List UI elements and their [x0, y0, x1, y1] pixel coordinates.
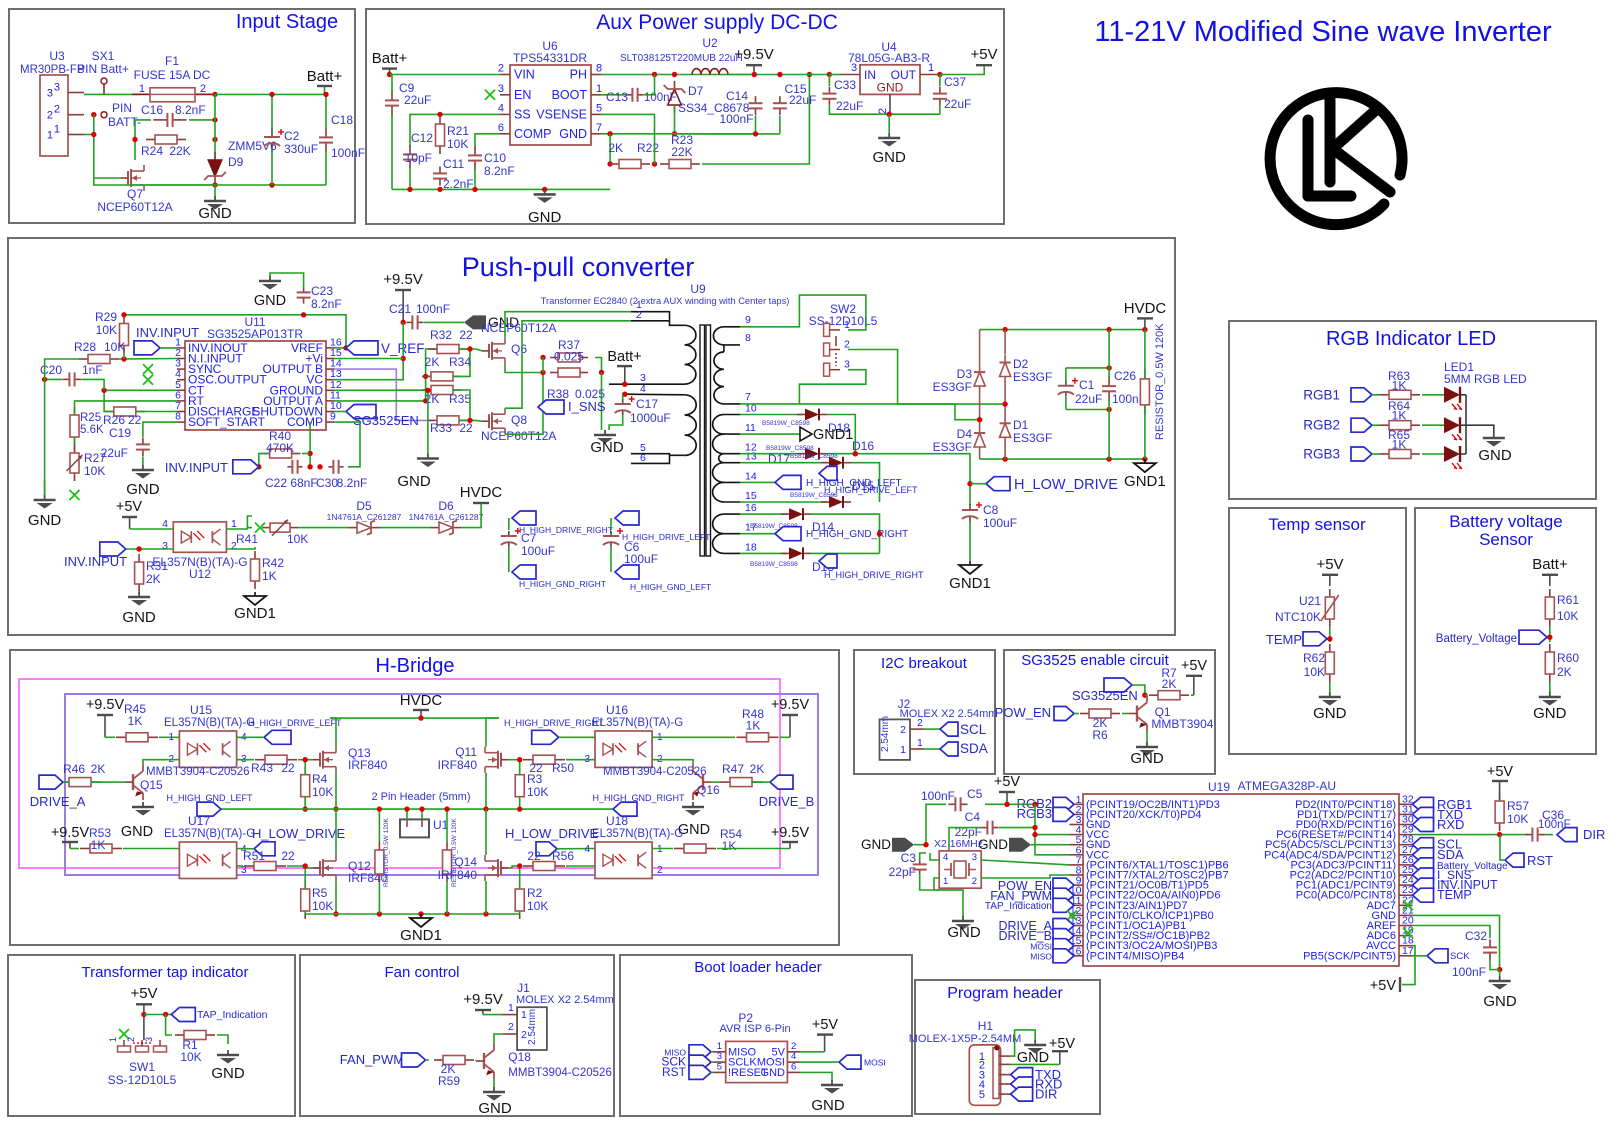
svg-text:R38: R38: [547, 387, 569, 401]
junction: [91, 132, 96, 137]
svg-text:NCEP60T12A: NCEP60T12A: [97, 200, 172, 214]
svg-text:SG3525EN: SG3525EN: [1072, 688, 1138, 703]
wire bleed r top: [446, 809, 448, 842]
wire u15 pin3: [237, 759, 254, 761]
wire pin16: [740, 513, 787, 515]
frame SG3525 enable circuit: [1004, 650, 1215, 774]
wire SCK p2: [711, 1061, 713, 1063]
ground c32: [1499, 976, 1501, 981]
wire sgen: [1132, 685, 1145, 695]
frame I2C breakout: [854, 650, 995, 774]
svg-text:SCL: SCL: [960, 722, 987, 737]
resistor R63: [1380, 394, 1389, 396]
svg-text:C10: C10: [484, 151, 506, 165]
junction: [853, 451, 858, 456]
net flag TEMP u19r: [1413, 888, 1434, 902]
svg-text:H-Bridge: H-Bridge: [376, 655, 455, 677]
schottky diode D18: [797, 414, 805, 416]
transistor Q1: [1136, 706, 1138, 722]
resistor R42: [254, 551, 256, 559]
power flag +5V r57: [1492, 780, 1508, 782]
wire fuse lead: [132, 93, 215, 95]
junction: [323, 92, 328, 97]
pin 16 U19 (PCINT4/MISO)PB4: [1070, 955, 1084, 957]
svg-text:4: 4: [498, 102, 504, 114]
pin 32 U19 PD2(INT0/PCINT18): [1399, 803, 1413, 805]
svg-text:C18: C18: [331, 113, 353, 127]
power flag +5V h1: [1052, 1050, 1068, 1052]
wire +vi: [334, 358, 403, 360]
junction: [937, 72, 942, 77]
frame Program header: [915, 980, 1100, 1114]
wire R65 out: [1422, 453, 1444, 455]
svg-text:C20: C20: [40, 363, 62, 377]
wire u18 flag: [557, 848, 595, 850]
resistor R38: [550, 372, 558, 374]
frame Push-pull converter: [8, 238, 1175, 635]
svg-text:HVDC: HVDC: [460, 484, 503, 501]
pin 2 J2: [910, 728, 924, 730]
svg-text:SG3525AP013TR: SG3525AP013TR: [207, 327, 303, 341]
svg-text:MMBT3904: MMBT3904: [1151, 717, 1213, 731]
pin 1 U19 (PCINT19/OC2B/INT1)PD3: [1070, 803, 1084, 805]
svg-text:1N4761A_C261287: 1N4761A_C261287: [409, 512, 484, 522]
net flag RGB1: [1351, 388, 1372, 402]
connector U3: [40, 75, 68, 156]
wire c4 right: [999, 827, 1035, 829]
power flag +5V p2: [817, 1033, 833, 1035]
svg-text:+5V: +5V: [1181, 658, 1208, 674]
svg-text:2: 2: [498, 63, 504, 75]
svg-text:5: 5: [979, 1089, 985, 1101]
ground sg3525: [427, 454, 429, 459]
svg-text:GND1: GND1: [813, 427, 853, 443]
pin 15 U19 (PCINT3/OC2A/MOSI)PB3: [1070, 945, 1084, 947]
svg-text:C13: C13: [606, 90, 628, 104]
svg-text:2K: 2K: [608, 141, 623, 155]
net flag MISO u19: [1053, 949, 1074, 963]
wire u16 r48: [652, 736, 735, 738]
net flag H_HIGH_DRIVE_RIGHT pp: [819, 554, 837, 568]
wire vref rail: [124, 315, 346, 348]
winding lead: [724, 462, 740, 464]
svg-text:Q14: Q14: [454, 855, 477, 869]
pin 6 U6 COMP: [500, 133, 510, 135]
svg-text:+9.5V: +9.5V: [463, 991, 503, 1008]
svg-text:8.2nF: 8.2nF: [484, 164, 515, 178]
rectifier diode D4: [979, 425, 981, 433]
pin 19 U19 ADC6: [1399, 935, 1413, 937]
capacitor C30: [328, 466, 333, 468]
svg-text:Sensor: Sensor: [1479, 530, 1533, 549]
svg-text:1: 1: [928, 62, 934, 74]
pin 8 U6 PH: [591, 74, 601, 76]
svg-text:H_HIGH_GND_LEFT: H_HIGH_GND_LEFT: [630, 582, 711, 592]
gnd flag left u19: [892, 838, 914, 852]
wire powen r6: [1074, 713, 1079, 715]
junction: [407, 187, 412, 192]
ground q16: [692, 802, 694, 807]
wire outA: [334, 349, 437, 401]
junction: [1002, 401, 1007, 406]
wire r45 u15: [159, 736, 179, 738]
power flag +5V u19: [999, 791, 1015, 793]
svg-text:22: 22: [281, 761, 295, 775]
junction: [444, 911, 449, 916]
wire r40 left: [259, 454, 269, 467]
winding lead: [724, 481, 740, 483]
svg-text:C23: C23: [311, 284, 333, 298]
wire gnd drop c32: [1499, 970, 1501, 976]
wire p2 5v: [800, 1051, 825, 1053]
svg-text:GND: GND: [947, 924, 981, 941]
wire reset: [1413, 834, 1529, 836]
capacitor C1: [1065, 381, 1067, 386]
resistor R33: [428, 419, 437, 421]
net flag MOSI p2: [839, 1055, 861, 1069]
net flag FAN_PWM u19: [1053, 888, 1074, 902]
wire outB purple: [334, 369, 431, 390]
svg-text:2K: 2K: [1557, 665, 1572, 679]
svg-text:2: 2: [900, 724, 906, 736]
aux winding 16-17: [713, 514, 724, 534]
svg-text:1: 1: [521, 1009, 527, 1021]
optocoupler U15: [179, 731, 236, 767]
svg-text:Q8: Q8: [511, 413, 527, 427]
wire ground pin: [334, 389, 428, 391]
svg-text:R50: R50: [552, 761, 574, 775]
wire q15 coll: [143, 760, 179, 764]
aux winding 17-18: [713, 534, 724, 554]
rectifier diode D2: [1004, 355, 1006, 363]
pin 2 J1: [503, 1033, 517, 1035]
pin 4 U6 SS: [500, 113, 510, 115]
pin 2 P2 5V: [787, 1051, 800, 1053]
svg-text:(PCINT4/MISO)PB4: (PCINT4/MISO)PB4: [1086, 950, 1184, 962]
wire bleed l top: [378, 809, 380, 842]
svg-text:GND: GND: [397, 473, 431, 490]
wire shutdown: [334, 411, 346, 413]
svg-text:SW1: SW1: [129, 1060, 155, 1074]
net flag SDA u19r: [1413, 848, 1434, 862]
svg-text:U9: U9: [690, 282, 706, 296]
svg-text:470K: 470K: [266, 441, 294, 455]
net flag H_HIGH_GND_LEFT: [775, 475, 801, 489]
svg-text:PH: PH: [570, 68, 587, 82]
wire led1 out: [1460, 394, 1466, 396]
pin 5 U19 GND: [1070, 844, 1084, 846]
svg-text:22K: 22K: [671, 145, 692, 159]
overlay purple rect: [65, 694, 818, 875]
transistor Q15: [132, 774, 134, 790]
pin 4 H1: [999, 1083, 1011, 1085]
power flag +5V aux: [976, 64, 992, 66]
capacitor C10: [474, 146, 476, 155]
svg-text:+9.5V: +9.5V: [51, 825, 90, 841]
wire l to c14: [728, 74, 829, 76]
junction: [1004, 802, 1009, 807]
svg-text:22: 22: [527, 849, 541, 863]
aux winding 14-15: [713, 482, 724, 502]
svg-text:RXD: RXD: [1437, 817, 1464, 832]
svg-text:0.025: 0.025: [554, 350, 584, 364]
svg-text:U19: U19: [1208, 780, 1230, 794]
pin 3 U3: [68, 92, 84, 94]
junction: [652, 161, 657, 166]
svg-text:4: 4: [162, 518, 168, 530]
junction H1: [994, 1045, 999, 1050]
svg-text:8: 8: [745, 332, 751, 344]
transistor Q13: [319, 753, 321, 767]
wire sw2 bot: [799, 370, 866, 404]
svg-text:Q7: Q7: [127, 187, 143, 201]
pin 3 U19 GND: [1070, 824, 1084, 826]
junction: [121, 312, 126, 317]
wire q13 drain: [330, 718, 336, 747]
pin 11 U11 OUTPUT A: [326, 400, 334, 402]
svg-text:+5V: +5V: [970, 46, 997, 63]
resistor R34: [422, 375, 431, 377]
resistor R3: [519, 767, 521, 775]
transistor Q7: [127, 171, 129, 185]
pin 22 U19 ADC7: [1399, 904, 1413, 906]
wire gate q8: [459, 419, 476, 421]
svg-text:C22: C22: [265, 476, 287, 490]
svg-text:22pF: 22pF: [889, 865, 916, 879]
svg-text:TAP_Indication: TAP_Indication: [197, 1009, 268, 1021]
pin 3 H1: [999, 1074, 1011, 1076]
svg-text:DRIVE_A: DRIVE_A: [30, 794, 86, 809]
svg-text:SCK: SCK: [1450, 951, 1470, 962]
wire right column: [214, 94, 216, 160]
svg-text:Transformer tap indicator: Transformer tap indicator: [81, 964, 248, 981]
svg-text:100nF: 100nF: [416, 302, 450, 316]
wire r60 gnd: [1549, 682, 1551, 692]
resistor R2: [519, 881, 521, 889]
schottky diode D15: [821, 501, 829, 503]
connector U1: [400, 819, 429, 837]
winding lead: [724, 453, 740, 455]
wire q18 gnd: [493, 1079, 495, 1087]
power flag HVDC u12: [473, 502, 489, 504]
svg-text:330uF: 330uF: [284, 142, 318, 156]
svg-text:C32: C32: [1465, 929, 1487, 943]
wire u16 flag: [559, 736, 595, 738]
wire 9v5 r53: [70, 848, 79, 850]
svg-text:22uF: 22uF: [404, 93, 431, 107]
svg-text:ES3GF: ES3GF: [1013, 431, 1052, 445]
svg-text:78L05G-AB3-R: 78L05G-AB3-R: [848, 51, 930, 65]
svg-text:ATMEGA328P-AU: ATMEGA328P-AU: [1238, 779, 1336, 793]
junction: [1032, 802, 1037, 807]
winding lead: [724, 414, 740, 416]
junction: [1032, 832, 1037, 837]
svg-text:R56: R56: [552, 849, 574, 863]
wire c1 top: [1065, 368, 1067, 381]
svg-text:GND: GND: [861, 837, 891, 852]
power flag +9.5V hb1: [97, 714, 113, 716]
potentiometer R41: [262, 527, 270, 529]
svg-text:1K: 1K: [1392, 438, 1407, 452]
wire gnd drop u4: [888, 114, 890, 133]
svg-text:GND: GND: [590, 439, 624, 456]
connector J1: [517, 1007, 547, 1050]
svg-text:GND: GND: [121, 824, 153, 840]
wire boot: [601, 94, 626, 96]
wire u4 gnd rail: [829, 106, 940, 114]
svg-text:D9: D9: [228, 155, 244, 169]
svg-text:5: 5: [717, 1061, 722, 1072]
power flag +9.5V: [746, 64, 762, 66]
svg-text:+5V: +5V: [116, 499, 143, 515]
svg-text:+5V: +5V: [994, 774, 1021, 790]
wire h1 5v: [1011, 1063, 1060, 1065]
svg-text:100nF: 100nF: [921, 789, 955, 803]
net flag Battery_Voltage: [1519, 630, 1547, 644]
svg-text:H_HIGH_GND_LEFT: H_HIGH_GND_LEFT: [167, 793, 254, 803]
fuse F1: [150, 88, 195, 102]
svg-text:GND: GND: [1478, 447, 1512, 464]
power flag +5V en: [1186, 675, 1202, 677]
svg-text:3: 3: [54, 82, 60, 94]
svg-text:TEMP: TEMP: [1437, 888, 1472, 902]
svg-text:ZMM5V6: ZMM5V6: [228, 139, 277, 153]
svg-text:+9.5V: +9.5V: [771, 697, 810, 713]
power flag +5V u12: [122, 516, 137, 518]
junction: [652, 72, 657, 77]
wire shunt gnd: [601, 373, 603, 431]
svg-text:MOSI: MOSI: [864, 1058, 886, 1068]
svg-text:9: 9: [330, 411, 336, 423]
svg-text:3: 3: [972, 852, 977, 863]
wire c1 rail bot: [1066, 409, 1109, 411]
junction: [542, 187, 547, 192]
svg-text:C37: C37: [944, 75, 966, 89]
no-connect sw1: [119, 1029, 129, 1039]
junction: [807, 72, 812, 77]
junction: [404, 806, 409, 811]
wire pin7 out: [740, 403, 799, 405]
wire r6 q1: [1122, 713, 1129, 715]
svg-text:+9.5V: +9.5V: [734, 46, 774, 63]
svg-text:R25: R25: [80, 412, 101, 424]
wire sda: [924, 748, 940, 750]
svg-text:+5V: +5V: [1370, 978, 1397, 994]
resistor R31: [138, 554, 140, 562]
resistor R54: [674, 848, 684, 850]
wire batt+ main: [84, 93, 132, 95]
resistor R35: [422, 389, 431, 391]
net flag MOSI u19: [1053, 939, 1074, 953]
wire q12 drain: [335, 809, 337, 855]
svg-text:RESISTOR_0.5W 120K: RESISTOR_0.5W 120K: [383, 817, 390, 887]
svg-text:DIR: DIR: [1035, 1087, 1057, 1102]
svg-text:1K: 1K: [128, 714, 143, 728]
svg-text:U18: U18: [606, 814, 628, 828]
power flag Batt+ pp: [617, 365, 632, 367]
svg-text:1: 1: [108, 1037, 118, 1042]
junction: [212, 182, 217, 187]
svg-text:17: 17: [1402, 945, 1414, 957]
junction: [540, 355, 545, 360]
wire d17 out: [827, 453, 955, 455]
svg-text:RGB3: RGB3: [1303, 447, 1340, 462]
svg-text:MISO: MISO: [1030, 952, 1052, 962]
svg-text:R4: R4: [312, 772, 328, 786]
resistor R47: [720, 781, 730, 783]
pin 28 U19 PC5(ADC5/SCL/PCINT13): [1399, 844, 1413, 846]
LED RGB3: [1444, 446, 1460, 462]
svg-text:AVR ISP 6-Pin: AVR ISP 6-Pin: [719, 1023, 790, 1035]
svg-text:GND: GND: [198, 205, 232, 222]
wire d14 out: [811, 514, 880, 553]
potentiometer R27: [74, 445, 76, 453]
svg-text:10K: 10K: [1507, 812, 1528, 826]
junction: [877, 531, 882, 536]
pin 11 U19 (PCINT23/AIN1)PD7: [1070, 904, 1084, 906]
winding lead: [724, 533, 740, 535]
gnd flag c21: [464, 315, 486, 329]
junction: [599, 370, 604, 375]
svg-text:7: 7: [596, 122, 602, 134]
wire q13 source: [335, 773, 337, 809]
capacitor C8: [969, 504, 971, 510]
transistor Q12: [319, 861, 321, 875]
net flag RST: [1505, 853, 1524, 867]
junction: [401, 356, 406, 361]
svg-text:1K: 1K: [262, 569, 277, 583]
svg-text:8: 8: [596, 63, 602, 75]
svg-text:GND1: GND1: [1124, 473, 1166, 490]
winding 9-8: [724, 326, 740, 328]
svg-text:GND: GND: [211, 1065, 245, 1082]
junction: [622, 392, 627, 397]
svg-text:Batt+: Batt+: [607, 349, 641, 365]
net flag RXD h1: [1011, 1077, 1033, 1091]
svg-text:22: 22: [128, 413, 142, 427]
junction: [517, 863, 522, 868]
net flag RXD u19: [1413, 818, 1434, 832]
svg-text:9: 9: [745, 314, 751, 326]
svg-text:GND: GND: [478, 1100, 512, 1117]
wire r1 gnd: [217, 1035, 228, 1044]
pin 2 H1: [999, 1063, 1011, 1065]
svg-text:D16: D16: [852, 439, 874, 453]
svg-text:2K: 2K: [1162, 677, 1177, 691]
aux winding 1: [713, 327, 723, 345]
zener diode D5: [349, 527, 357, 529]
gnd flag pin5: [1009, 838, 1031, 852]
svg-text:100nF: 100nF: [719, 112, 753, 126]
svg-text:GND: GND: [873, 149, 907, 166]
junction: [42, 377, 47, 382]
svg-text:11-21V Modified Sine wave Inve: 11-21V Modified Sine wave Inverter: [1094, 16, 1552, 48]
svg-text:+5V: +5V: [1049, 1036, 1076, 1052]
power flag +9.5V hb2: [62, 841, 78, 843]
wire r2 bot: [519, 911, 521, 914]
no-connect ADC6: [1403, 928, 1413, 938]
svg-text:1K: 1K: [1392, 409, 1407, 423]
svg-text:R51: R51: [243, 849, 265, 863]
pin 10 U19 (PCINT22/OC0A/AIN0)PD6: [1070, 894, 1084, 896]
aux winding 11-12: [713, 434, 724, 454]
ground GND1 c8: [969, 561, 971, 565]
crystal X2: [939, 851, 981, 888]
svg-text:IRF840: IRF840: [348, 758, 388, 772]
wire c2 top: [271, 94, 273, 129]
svg-text:Q6: Q6: [511, 342, 527, 356]
net flag DRIVE_B: [770, 775, 793, 789]
